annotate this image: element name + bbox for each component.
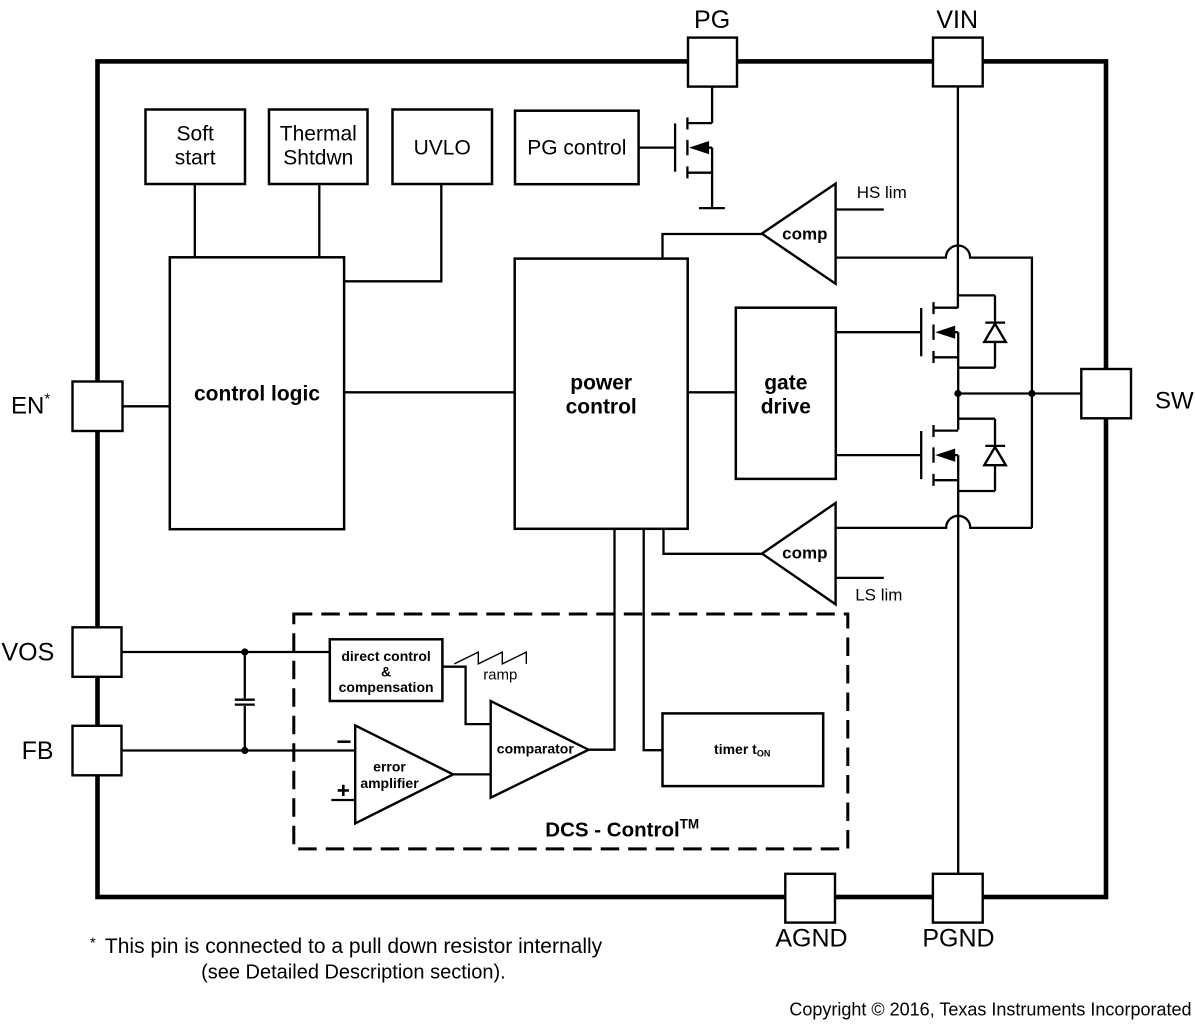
svg-text:compensation: compensation [339, 679, 434, 695]
svg-text:ramp: ramp [483, 666, 517, 683]
svg-text:SW: SW [1155, 388, 1194, 415]
svg-text:EN*: EN* [11, 391, 50, 420]
svg-text:(see Detailed Description sect: (see Detailed Description section). [201, 962, 506, 984]
svg-text:&: & [381, 664, 391, 680]
svg-text:control: control [566, 396, 637, 419]
svg-text:gate: gate [764, 372, 807, 395]
svg-text:AGND: AGND [775, 925, 847, 953]
svg-text:comp: comp [782, 543, 827, 562]
svg-text:This pin is connected to a pul: This pin is connected to a pull down res… [105, 935, 603, 958]
svg-text:comp: comp [782, 225, 827, 244]
svg-text:error: error [373, 758, 406, 774]
svg-text:amplifier: amplifier [360, 775, 419, 791]
svg-text:FB: FB [22, 737, 54, 765]
svg-text:LS lim: LS lim [855, 586, 902, 605]
svg-text:PG control: PG control [527, 137, 626, 160]
svg-text:VIN: VIN [936, 6, 978, 34]
svg-text:drive: drive [761, 396, 811, 419]
svg-text:start: start [175, 147, 216, 170]
svg-text:power: power [570, 372, 632, 395]
svg-text:VOS: VOS [2, 639, 55, 667]
svg-text:direct control: direct control [341, 648, 430, 664]
svg-text:Shtdwn: Shtdwn [283, 147, 353, 170]
svg-text:Copyright © 2016, Texas Instru: Copyright © 2016, Texas Instruments Inco… [789, 1000, 1191, 1020]
svg-text:control logic: control logic [194, 383, 320, 406]
svg-text:HS lim: HS lim [857, 183, 907, 202]
svg-text:comparator: comparator [497, 740, 575, 756]
svg-text:PGND: PGND [922, 925, 994, 953]
svg-text:Soft: Soft [177, 123, 215, 146]
svg-text:UVLO: UVLO [414, 137, 471, 160]
svg-text:Thermal: Thermal [280, 123, 357, 146]
svg-text:PG: PG [694, 6, 730, 34]
svg-text:*: * [90, 935, 96, 952]
svg-text:DCS - ControlTM: DCS - ControlTM [545, 816, 699, 841]
